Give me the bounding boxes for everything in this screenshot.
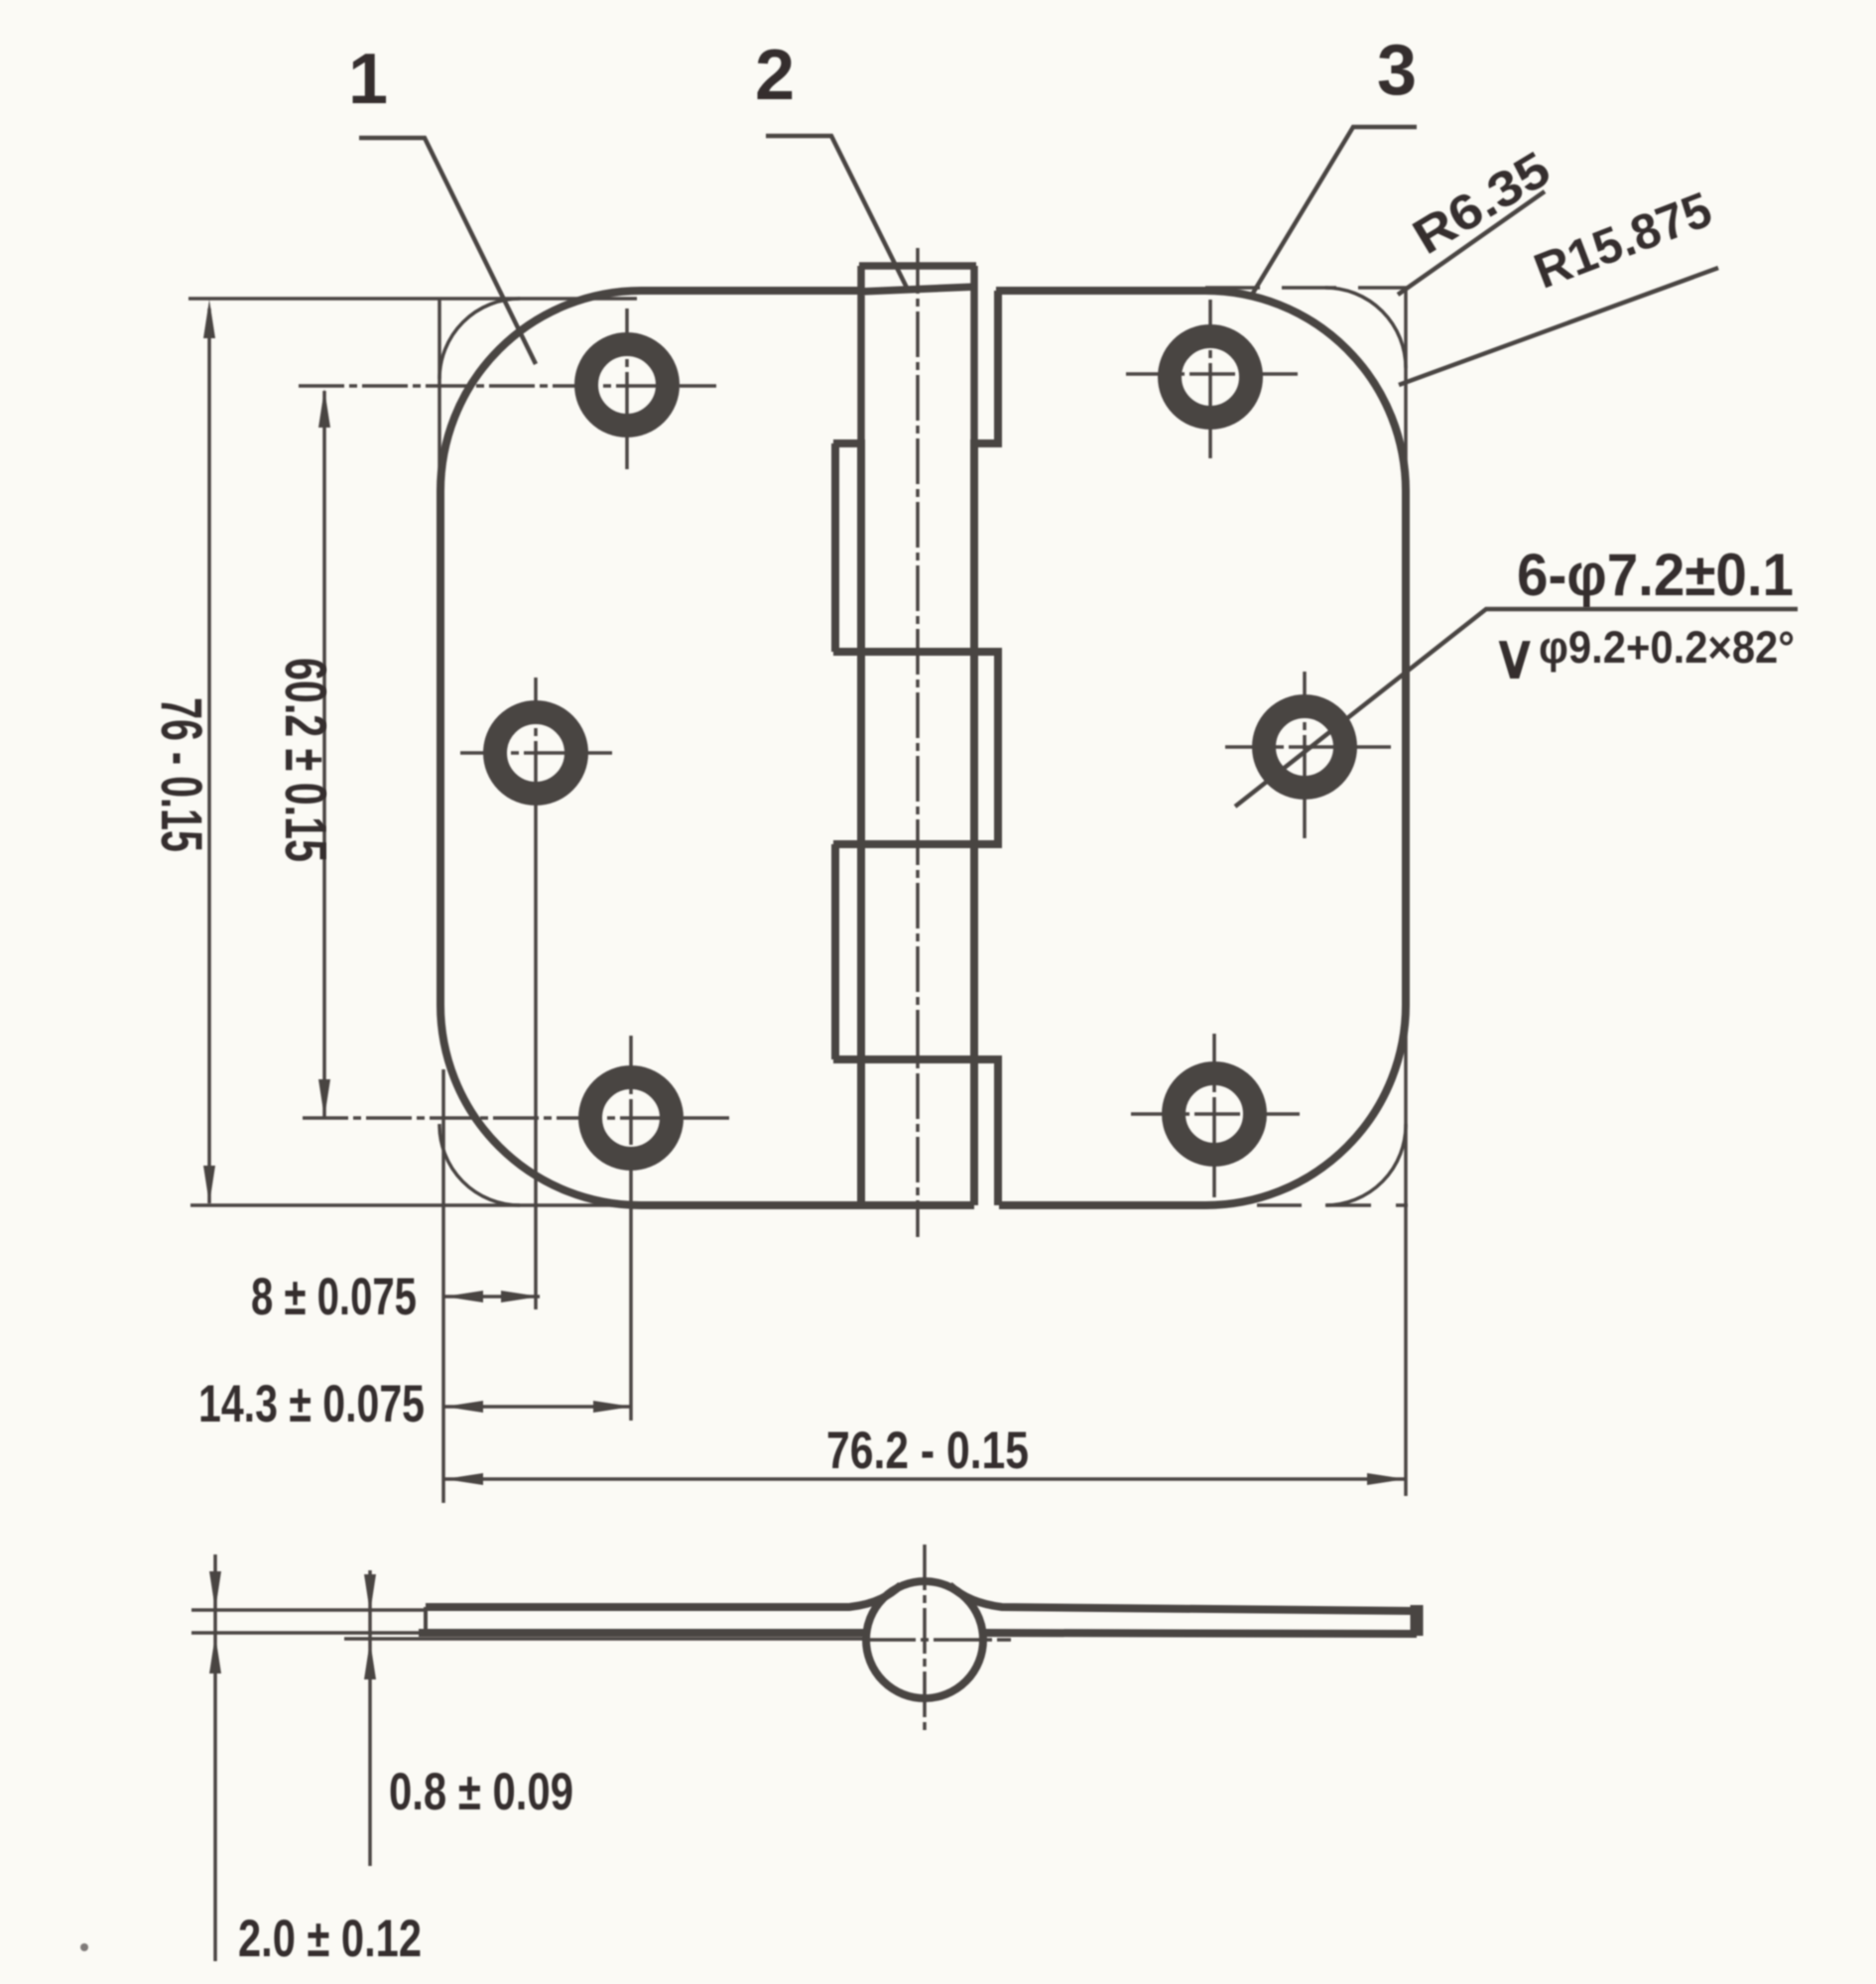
- knuckle K3: [833, 652, 1002, 844]
- corner TR R6.35 arc: [1325, 288, 1406, 368]
- callout 3 leader: [1252, 127, 1417, 295]
- dimension 14.3 line: [444, 1405, 632, 1409]
- side: right leaf bottom edge: [982, 1633, 1417, 1634]
- stray dot bottom-left: [80, 1943, 88, 1951]
- dimension 8 line: [444, 1295, 540, 1299]
- hole R-mid: [1264, 706, 1345, 788]
- corner BL extension line down: [441, 1069, 445, 1503]
- dimension 76-0.15 line: [207, 309, 211, 1203]
- dimension 60.2 arrows: [318, 389, 330, 1118]
- hole note leader + underline: [1235, 609, 1798, 806]
- hole L-top: [586, 344, 668, 426]
- R6.35 leader: [1398, 191, 1545, 295]
- side: barrel horizontal centerline: [870, 1638, 1011, 1642]
- svg-text:φ9.2+0.2×82°: φ9.2+0.2×82°: [1539, 622, 1795, 673]
- hole L-mid crosshair: [460, 678, 612, 828]
- dimension 2.0 arrows: [209, 1571, 221, 1674]
- knuckle K4: [833, 844, 1002, 1059]
- dimension 60.2 line: [322, 391, 326, 1117]
- knuckle K1 (top): [859, 266, 976, 443]
- right leaf outline: [996, 291, 1406, 1205]
- side: barrel vertical centerline: [923, 1545, 927, 1732]
- svg-text:76.2 - 0.15: 76.2 - 0.15: [826, 1422, 1029, 1480]
- dimension 14.3 arrows: [444, 1401, 632, 1413]
- dimension 76.2 arrows: [444, 1473, 1406, 1485]
- dimension 0.8 arrows: [364, 1574, 376, 1679]
- corner TL R6.35 arc: [439, 299, 520, 379]
- svg-text:60.2 ± 0.15: 60.2 ± 0.15: [273, 658, 337, 862]
- dimension 8 arrows: [444, 1291, 540, 1302]
- svg-text:6-φ7.2±0.1: 6-φ7.2±0.1: [1517, 542, 1794, 608]
- dimension 0.8 line: [368, 1570, 372, 1866]
- side: right leaf end cap: [1411, 1605, 1424, 1636]
- corner TL theoretical lines: [188, 299, 637, 496]
- svg-text:76 - 0.15: 76 - 0.15: [149, 697, 213, 852]
- hole R-bot: [1174, 1073, 1255, 1155]
- svg-text:8 ± 0.075: 8 ± 0.075: [251, 1268, 417, 1326]
- svg-text:2.0 ± 0.12: 2.0 ± 0.12: [238, 1910, 422, 1968]
- hole L-mid: [495, 712, 576, 794]
- corner BL theoretical line: [190, 1203, 639, 1207]
- side: barrel circle: [866, 1581, 983, 1698]
- right plate edge upper: [970, 291, 1002, 443]
- svg-text:2: 2: [755, 36, 795, 115]
- hole L-top crosshair: [299, 309, 716, 469]
- corner BR R6.35 arc: [1325, 1124, 1406, 1205]
- svg-text:∨: ∨: [1492, 623, 1537, 691]
- hole R-mid crosshair: [1225, 672, 1391, 838]
- corner BR theoretical dashed line: [1257, 1203, 1408, 1207]
- hole R-top: [1170, 336, 1251, 418]
- left plate edge through barrel: [857, 443, 865, 1205]
- svg-text:1: 1: [348, 40, 388, 119]
- barrel inner edge line: [970, 443, 978, 1205]
- side: right leaf top edge: [949, 1585, 1417, 1611]
- hole R-bot crosshair: [1131, 1034, 1300, 1197]
- dimension 76-0.15 arrows: [203, 300, 215, 1204]
- hole L-bot: [590, 1077, 672, 1159]
- pin centerline: [916, 248, 920, 1237]
- side: left leaf end step: [424, 1607, 428, 1634]
- corner BL R6.35 arc: [439, 1124, 520, 1205]
- hole R-top crosshair: [1126, 300, 1298, 458]
- knuckle K2: [833, 443, 865, 652]
- corner TR theoretical lines: [1205, 286, 1408, 290]
- svg-text:3: 3: [1377, 31, 1417, 110]
- hole L-bot crosshair: [303, 1036, 731, 1197]
- side: left leaf top edge: [426, 1585, 901, 1607]
- side: left leaf bottom edge: [419, 1629, 870, 1637]
- dimension 2.0 line: [213, 1554, 217, 1961]
- hole L-bot extension to 14.3-dim: [629, 1197, 633, 1421]
- knuckle K5: [833, 1059, 1002, 1205]
- callout 1 leader: [359, 138, 536, 364]
- left leaf outline: [440, 291, 974, 1205]
- svg-text:0.8 ± 0.09: 0.8 ± 0.09: [389, 1763, 573, 1821]
- side: bottom reference thin line: [344, 1637, 870, 1641]
- hole L-mid extension to 8-dim: [534, 828, 538, 1309]
- side: extension thin lines left: [191, 1610, 426, 1633]
- corner BR extension line down: [1404, 1005, 1408, 1496]
- callout 2 leader: [766, 136, 907, 288]
- R15.875 leader: [1399, 268, 1718, 385]
- dimension 76.2 line: [444, 1477, 1406, 1481]
- svg-text:14.3 ± 0.075: 14.3 ± 0.075: [198, 1375, 425, 1433]
